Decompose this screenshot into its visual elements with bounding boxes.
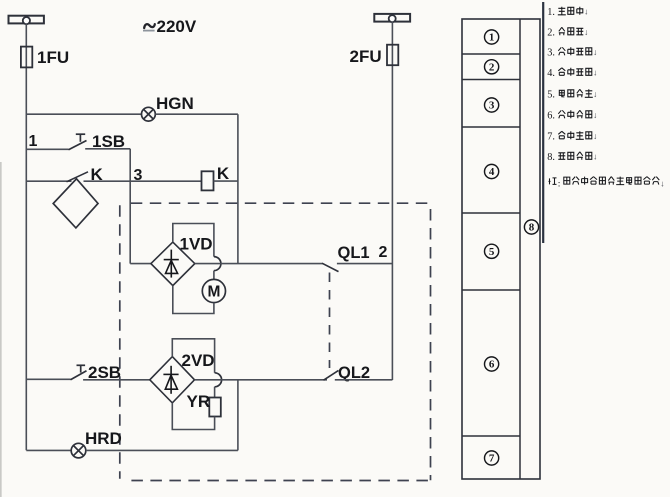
svg-text:1VD: 1VD bbox=[180, 235, 213, 254]
svg-text:1: 1 bbox=[489, 32, 495, 44]
svg-text:2.: 2. bbox=[547, 28, 555, 39]
svg-text:8: 8 bbox=[529, 222, 535, 234]
svg-text:2FU: 2FU bbox=[350, 47, 382, 66]
wire: HGN branch right segment bbox=[155, 113, 238, 115]
svg-text:5: 5 bbox=[489, 246, 495, 258]
wire: left vertical main (busbar to HRD corner) bbox=[25, 24, 27, 451]
wire: QL2 right segment to 2FU line bbox=[335, 379, 393, 381]
wire: QL2 line (2VD right vertex to contact) bbox=[195, 379, 328, 381]
bridge rectifier 2VD bbox=[150, 357, 195, 403]
svg-text:↓: ↓ bbox=[584, 7, 588, 17]
svg-text:7: 7 bbox=[489, 453, 495, 465]
fuse 1FU bbox=[21, 47, 32, 68]
circled number 1 (zone 1) bbox=[485, 30, 499, 44]
wire hump (crossover of QL1 line) bbox=[214, 257, 221, 271]
wire: 1SB to vertical node bbox=[85, 148, 130, 150]
svg-text:4: 4 bbox=[489, 166, 495, 178]
wire: hump to resistor YR bbox=[214, 387, 216, 398]
svg-text:6.: 6. bbox=[547, 111, 555, 122]
svg-text:5.: 5. bbox=[547, 90, 555, 101]
wire: motor bottom loop to 1VD bottom vertex bbox=[173, 286, 214, 314]
svg-text:220V: 220V bbox=[157, 17, 197, 36]
circled number 5 (zone 5) bbox=[485, 244, 499, 258]
relay coil K bbox=[202, 171, 214, 190]
wire: HRD line left segment bbox=[26, 449, 71, 451]
wire: QL1 line (1VD right vertex to contact) bbox=[195, 263, 323, 265]
wire: right vertical (HGN line down to QL1 line) bbox=[237, 114, 239, 263]
wire: QL1 right segment to 2FU line bbox=[337, 263, 393, 265]
dashed box (mechanism internal wiring) bbox=[120, 203, 431, 480]
lamp HGN (indicator lamp) bbox=[142, 107, 156, 121]
svg-text:K: K bbox=[217, 164, 230, 183]
wire: contact K to coil K bbox=[84, 180, 202, 182]
legend table frame bbox=[462, 19, 540, 479]
wire: into 1VD left vertex bbox=[130, 263, 151, 265]
wire: 2SB to 2VD left vertex bbox=[83, 379, 150, 381]
circled number 7 (zone 7) bbox=[485, 451, 499, 465]
auxiliary contact QL2 blade bbox=[324, 370, 339, 380]
mechanical link QL1-QL2 (dashed) bbox=[329, 273, 331, 369]
svg-text:QL1: QL1 bbox=[338, 244, 370, 262]
svg-text:M: M bbox=[207, 283, 220, 300]
busbar B1 (small busbar, left) bbox=[9, 16, 44, 24]
svg-text:3.: 3. bbox=[547, 48, 555, 59]
svg-text:6: 6 bbox=[489, 359, 495, 371]
motor M bbox=[202, 279, 225, 302]
bridge rectifier 1VD bbox=[151, 242, 195, 286]
svg-text:↓: ↓ bbox=[593, 152, 597, 162]
svg-text:3: 3 bbox=[134, 167, 143, 184]
svg-text:1: 1 bbox=[29, 133, 38, 150]
busbar B2 (small busbar, right) bbox=[374, 14, 410, 22]
svg-text:2: 2 bbox=[489, 62, 495, 74]
relay contact K (NO) bbox=[26, 180, 71, 182]
page rule line (right of table) bbox=[542, 2, 544, 243]
svg-text::: : bbox=[558, 180, 561, 190]
circled number 2 (zone 2) bbox=[485, 60, 499, 74]
wire: HRD line right segment bbox=[86, 449, 238, 451]
pushbutton 2SB (NO contact) bbox=[26, 378, 70, 380]
wire: vertical from 1SB down to 1VD bbox=[129, 149, 131, 264]
svg-text:↓: ↓ bbox=[593, 89, 597, 99]
svg-text:1FU: 1FU bbox=[37, 48, 69, 67]
svg-text:↓: ↓ bbox=[593, 110, 597, 120]
svg-text:↓: ↓ bbox=[584, 27, 588, 37]
wire: hump to motor bbox=[213, 271, 215, 280]
scan edge artifact (left) bbox=[0, 162, 2, 497]
wire: 1VD top loop to motor branch bbox=[173, 224, 214, 257]
svg-text:2VD: 2VD bbox=[182, 351, 215, 370]
wire: YR bottom loop to 2VD bottom vertex bbox=[172, 403, 214, 430]
svg-text:1.: 1. bbox=[547, 7, 555, 18]
svg-text:HRD: HRD bbox=[85, 429, 122, 448]
diamond position-indicator symbol bbox=[53, 179, 98, 228]
auxiliary contact QL1 blade bbox=[322, 263, 339, 271]
svg-text:3: 3 bbox=[489, 100, 495, 112]
label ~220V (AC supply) bbox=[144, 24, 155, 28]
wire hump (crossover of QL2 line) bbox=[215, 373, 222, 387]
note line (dashed box explanation) bbox=[549, 178, 557, 185]
resistor YR bbox=[209, 398, 221, 417]
svg-text:4.: 4. bbox=[547, 68, 555, 79]
circled number 3 (zone 3) bbox=[485, 98, 499, 112]
circled number 6 (zone 6) bbox=[485, 357, 499, 371]
svg-text:YR: YR bbox=[187, 392, 211, 411]
wire: coil K to right vertical bbox=[214, 180, 238, 182]
svg-text:↓: ↓ bbox=[660, 178, 664, 188]
svg-text:8.: 8. bbox=[547, 152, 555, 163]
circled number 4 (zone 4) bbox=[485, 164, 499, 178]
svg-text:↓: ↓ bbox=[593, 131, 597, 141]
wire: 2VD top loop to YR branch bbox=[172, 339, 214, 373]
fuse 2FU bbox=[387, 45, 398, 65]
lamp HRD (indicator lamp) bbox=[71, 443, 86, 458]
svg-text:HGN: HGN bbox=[156, 94, 194, 113]
svg-text:↓: ↓ bbox=[593, 47, 597, 57]
wire: 2FU vertical (busbar down to QL2 line) bbox=[391, 22, 393, 381]
pushbutton 1SB (NO contact) bbox=[26, 148, 68, 150]
circled number 8 (zone 8) bbox=[524, 220, 538, 234]
svg-text:2: 2 bbox=[379, 244, 388, 261]
svg-text:↓: ↓ bbox=[593, 68, 597, 78]
wire: right vertical (QL2 line down to HRD line) bbox=[237, 380, 239, 451]
svg-text:7.: 7. bbox=[547, 132, 555, 143]
wire: HGN branch left segment bbox=[26, 113, 141, 115]
